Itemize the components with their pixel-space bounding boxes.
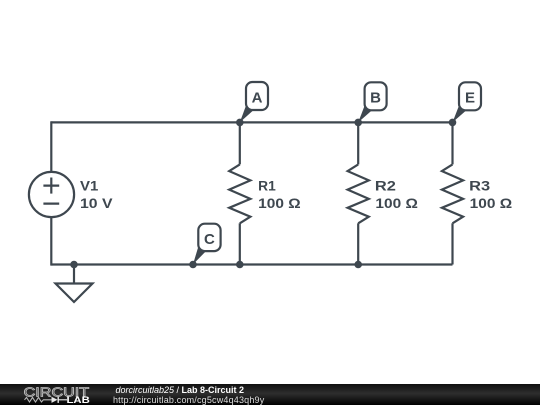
svg-text:LAB: LAB xyxy=(67,395,90,405)
wire top bus xyxy=(51,121,452,123)
wire R1 bottom lead xyxy=(239,223,241,264)
wire R2 top lead xyxy=(357,122,359,164)
junction dot ground xyxy=(70,261,78,269)
wire R1 top lead xyxy=(239,122,241,164)
svg-text:100 Ω: 100 Ω xyxy=(375,196,418,211)
node B xyxy=(354,82,386,126)
wire left branch upper (top bus to V1 plus terminal) xyxy=(50,121,52,172)
svg-text:C: C xyxy=(204,231,215,248)
junction dot R2 bottom xyxy=(354,261,362,269)
CircuitLab logo resistor squiggle xyxy=(25,397,52,402)
voltage source V1 xyxy=(29,172,74,217)
junction dot R1 bottom xyxy=(236,261,244,269)
resistor R2 xyxy=(348,164,369,223)
label R1 100 Ω xyxy=(258,179,301,212)
wire R2 bottom lead xyxy=(357,223,359,264)
wire left branch lower (V1 minus terminal to bottom bus) xyxy=(50,217,52,266)
label V1 10 V xyxy=(80,178,113,211)
ground xyxy=(56,265,93,303)
svg-text:E: E xyxy=(465,89,475,106)
resistor R1 xyxy=(229,164,250,223)
wire R3 bottom lead xyxy=(451,223,453,264)
resistor R3 xyxy=(442,164,463,223)
wire R3 top lead xyxy=(451,122,453,164)
node A xyxy=(236,82,268,126)
svg-text:10 V: 10 V xyxy=(80,196,113,211)
node C xyxy=(189,224,220,269)
label R3 100 Ω xyxy=(469,179,512,212)
node E xyxy=(449,82,481,126)
svg-text:100 Ω: 100 Ω xyxy=(258,196,301,211)
svg-text:100 Ω: 100 Ω xyxy=(470,196,513,211)
svg-text:A: A xyxy=(252,89,263,106)
CircuitLab logo diode xyxy=(52,397,58,403)
svg-text:B: B xyxy=(370,89,381,106)
wire bottom bus xyxy=(51,263,452,265)
svg-text:R1: R1 xyxy=(258,179,276,194)
svg-text:R3: R3 xyxy=(469,179,491,194)
svg-text:R2: R2 xyxy=(375,179,396,194)
label R2 100 Ω xyxy=(375,179,418,212)
svg-text:V1: V1 xyxy=(80,178,99,193)
